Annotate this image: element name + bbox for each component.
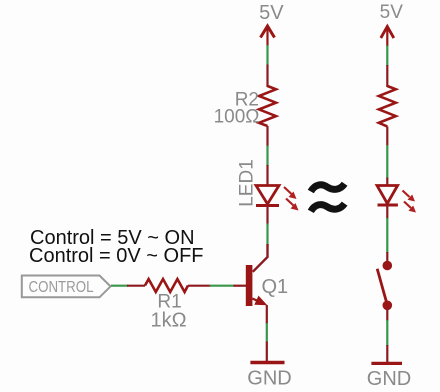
- svg-text:Control = 0V ~ OFF: Control = 0V ~ OFF: [29, 245, 204, 267]
- wire: [386, 65, 388, 87]
- Q1 emitter arrowhead: [254, 296, 267, 306]
- resistor R2: [259, 86, 276, 126]
- svg-text:GND: GND: [247, 368, 291, 390]
- resistor (right): [379, 86, 396, 127]
- svg-text:Q1: Q1: [262, 276, 289, 298]
- wire: [127, 285, 145, 287]
- approx-equal symbol: [311, 184, 345, 212]
- wire: [266, 342, 268, 363]
- wire switch to GND: [386, 308, 388, 321]
- wire: [266, 323, 268, 343]
- wire CONTROL to R1: [111, 285, 128, 287]
- net label CONTROL tag: [22, 276, 111, 298]
- wire: [266, 224, 268, 246]
- LED1 emission arrow 2: [286, 199, 299, 211]
- wire: [210, 285, 235, 287]
- wire LED1 to Q1 collector: [266, 206, 268, 225]
- svg-text:LED1: LED1: [237, 159, 258, 207]
- switch top contact: [383, 261, 393, 271]
- wire + collector lead: [253, 244, 268, 272]
- wire (right): [386, 46, 388, 67]
- wire: [266, 65, 268, 88]
- wire R1 to Q1 base: [188, 285, 211, 287]
- wire emitter to GND: [266, 305, 268, 324]
- wire 5V to R2: [266, 45, 268, 66]
- LED emission arrow 1 (right): [403, 191, 416, 202]
- LED cathode bar (right): [378, 204, 398, 207]
- wire: [234, 285, 247, 287]
- wire LED to switch: [386, 206, 388, 220]
- svg-text:CONTROL: CONTROL: [29, 279, 94, 296]
- resistor R1: [145, 279, 188, 292]
- wire: [386, 252, 388, 262]
- 5V power arrow symbol (right): [381, 27, 394, 47]
- LED1 diode triangle: [256, 186, 279, 205]
- LED1 cathode bar: [256, 204, 279, 207]
- 5V power arrow symbol (left): [261, 26, 275, 46]
- ground symbol (left): [250, 361, 284, 364]
- wire: [386, 320, 388, 346]
- switch lever: [377, 269, 387, 305]
- wire R2 to LED1: [266, 126, 268, 147]
- LED emission arrow 2 (right): [404, 202, 416, 213]
- Q1 emitter lead: [252, 299, 260, 303]
- svg-text:GND: GND: [367, 368, 411, 390]
- wire: [266, 165, 268, 186]
- wire: [386, 145, 388, 179]
- svg-text:5V: 5V: [380, 2, 404, 23]
- svg-text:1kΩ: 1kΩ: [150, 310, 186, 332]
- wire: [386, 218, 388, 253]
- transistor Q1 base bar: [246, 265, 253, 306]
- switch bottom contact: [383, 301, 393, 311]
- wire: [266, 146, 268, 167]
- LED1 emission arrow 1: [284, 187, 297, 199]
- wire: [386, 127, 388, 147]
- wire: [386, 178, 388, 187]
- LED diode triangle (right): [377, 186, 398, 204]
- ground symbol (right): [371, 362, 402, 365]
- wire: [386, 345, 388, 363]
- svg-text:5V: 5V: [259, 2, 284, 24]
- svg-text:100Ω: 100Ω: [214, 107, 260, 128]
